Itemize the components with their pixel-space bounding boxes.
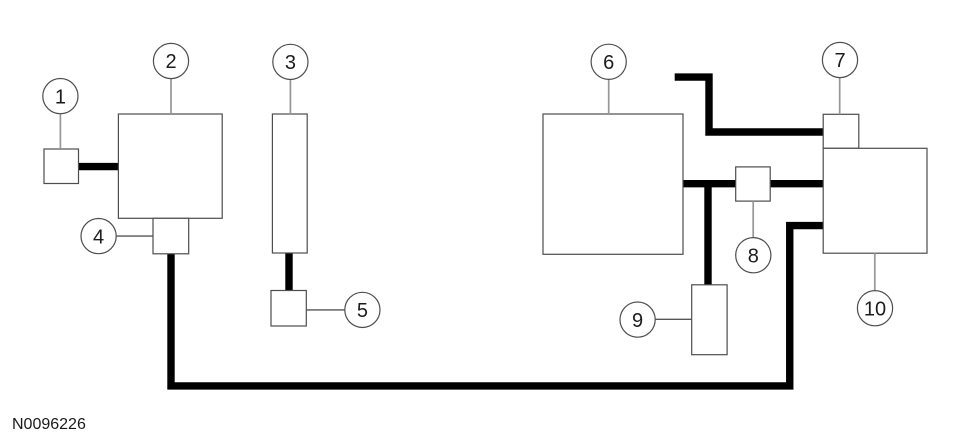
svg-text:9: 9 [632, 310, 643, 332]
svg-text:4: 4 [93, 226, 104, 248]
svg-text:5: 5 [357, 300, 368, 322]
svg-text:3: 3 [285, 52, 296, 74]
svg-text:8: 8 [748, 245, 759, 267]
svg-text:2: 2 [165, 51, 176, 73]
svg-text:6: 6 [603, 52, 614, 74]
svg-text:7: 7 [834, 50, 845, 72]
svg-text:10: 10 [864, 298, 886, 320]
svg-text:N0096226: N0096226 [12, 416, 86, 433]
svg-text:1: 1 [55, 86, 66, 108]
